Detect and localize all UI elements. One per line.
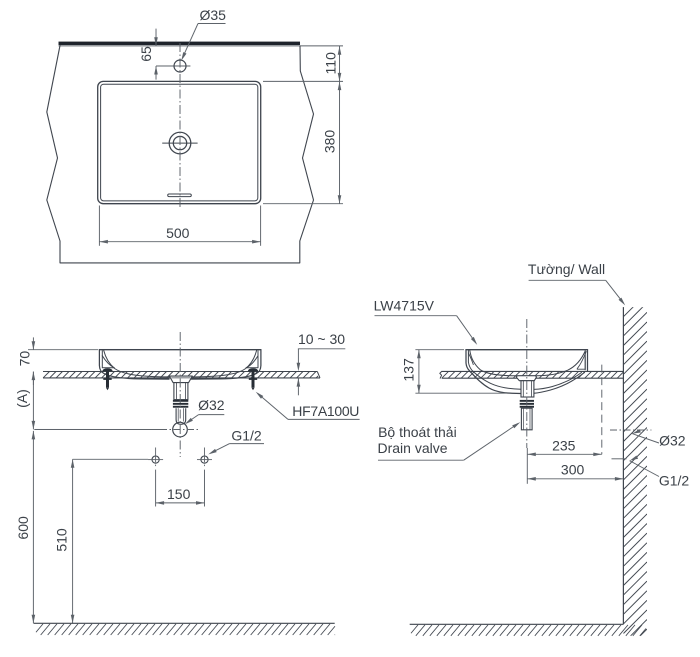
svg-text:Bộ thoát thải: Bộ thoát thải	[378, 424, 457, 440]
svg-text:Ø32: Ø32	[198, 397, 225, 413]
svg-text:Tường/ Wall: Tường/ Wall	[528, 261, 605, 277]
svg-text:65: 65	[138, 46, 154, 62]
svg-text:380: 380	[322, 130, 338, 154]
svg-text:500: 500	[166, 225, 190, 241]
svg-text:110: 110	[323, 52, 339, 75]
svg-text:Drain valve: Drain valve	[377, 440, 447, 456]
svg-text:150: 150	[167, 486, 191, 502]
svg-text:300: 300	[561, 462, 585, 478]
svg-text:G1/2: G1/2	[231, 428, 262, 444]
svg-text:10 ~ 30: 10 ~ 30	[298, 331, 345, 347]
svg-text:(A): (A)	[14, 389, 30, 408]
svg-text:510: 510	[54, 528, 70, 552]
svg-text:HF7A100U: HF7A100U	[292, 403, 359, 419]
svg-text:LW4715V: LW4715V	[374, 297, 435, 313]
svg-text:137: 137	[400, 358, 416, 382]
svg-text:Ø35: Ø35	[199, 7, 226, 23]
svg-text:600: 600	[15, 516, 31, 540]
svg-text:70: 70	[16, 351, 32, 367]
svg-text:G1/2: G1/2	[659, 473, 690, 489]
svg-text:235: 235	[552, 437, 576, 453]
svg-text:Ø32: Ø32	[659, 433, 686, 449]
